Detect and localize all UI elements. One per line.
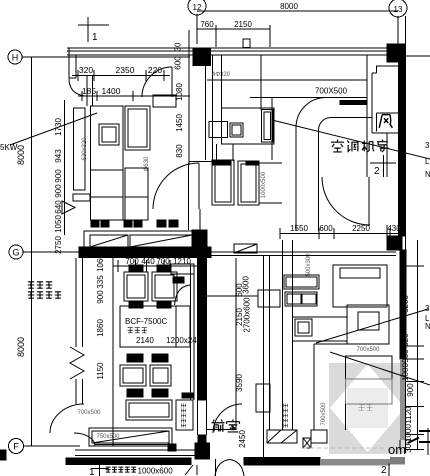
machine room floor wall lines xyxy=(207,252,396,256)
black tick bottom mid xyxy=(168,444,176,451)
door arcs bottom left xyxy=(50,404,95,446)
duct connection lines to right room xyxy=(293,317,348,344)
svg-text:2150: 2150 xyxy=(234,20,252,29)
watermark zhulong gray field xyxy=(329,363,406,454)
dimension row 1550 600 2250 430 xyxy=(280,224,403,239)
grille on band right xyxy=(234,244,257,253)
svg-text:700x500: 700x500 xyxy=(356,347,380,353)
bottom wall xyxy=(66,450,320,465)
svg-text:520: 520 xyxy=(401,333,410,347)
double door bottom xyxy=(215,459,244,476)
svg-text:1150: 1150 xyxy=(96,362,105,380)
front room right wall xyxy=(236,256,270,457)
svg-text:1450: 1450 xyxy=(175,114,184,132)
wall between rooms top xyxy=(206,55,213,160)
svg-text:600: 600 xyxy=(174,56,183,70)
tiny labels 700x500 bottom left xyxy=(77,410,120,440)
dimension column x189 30 600 1080 1450 830 xyxy=(174,30,190,165)
svg-text:900: 900 xyxy=(54,184,63,198)
svg-text:220: 220 xyxy=(148,65,162,75)
room label air conditioning machine room xyxy=(331,140,388,152)
machine room silencers xyxy=(212,160,282,205)
grille front room xyxy=(267,430,297,443)
svg-text:3200: 3200 xyxy=(401,295,410,313)
door arc front room xyxy=(213,404,242,433)
right edge cut texts 3 L N xyxy=(425,141,430,179)
wall pier black top middle xyxy=(193,48,211,66)
svg-text:430: 430 xyxy=(387,224,401,233)
svg-text:1000x500: 1000x500 xyxy=(261,171,267,198)
section marker 2 bottom xyxy=(381,464,389,476)
top wall xyxy=(67,39,430,78)
grid bubble G xyxy=(9,245,23,259)
svg-text:2250: 2250 xyxy=(352,224,370,233)
leader line lower right xyxy=(316,309,428,343)
svg-text:900: 900 xyxy=(96,290,105,304)
section marker 1 bottom xyxy=(89,462,108,476)
flanges bottom xyxy=(127,389,168,397)
svg-text:3590: 3590 xyxy=(235,374,244,392)
front room header line xyxy=(207,429,237,431)
svg-text:750x500: 750x500 xyxy=(96,434,120,440)
svg-text:2450: 2450 xyxy=(238,430,247,448)
svg-text:2: 2 xyxy=(381,465,387,476)
equipment stacked boxes left room xyxy=(91,168,149,220)
svg-text:N: N xyxy=(425,322,430,331)
svg-text:8000: 8000 xyxy=(280,2,298,11)
svg-text:2140: 2140 xyxy=(136,336,154,345)
svg-text:1: 1 xyxy=(92,32,98,43)
svg-text:335: 335 xyxy=(96,275,105,289)
svg-text:8000: 8000 xyxy=(16,145,26,165)
vertical duct riser left xyxy=(73,108,90,201)
svg-text:H: H xyxy=(12,53,19,63)
svg-text:F: F xyxy=(13,442,19,452)
svg-text:3: 3 xyxy=(425,304,430,313)
grid line vertical left xyxy=(31,57,33,446)
grid line G xyxy=(23,251,80,253)
grid bubble F xyxy=(9,439,24,454)
svg-text:1860: 1860 xyxy=(96,319,105,337)
right wall inner face lines xyxy=(386,133,388,236)
svg-text:L: L xyxy=(425,157,430,166)
svg-text:1000: 1000 xyxy=(401,363,410,381)
svg-text:600: 600 xyxy=(319,224,333,233)
svg-text:700x500: 700x500 xyxy=(77,410,101,416)
svg-text:2350: 2350 xyxy=(116,65,135,75)
leader diag bottom right xyxy=(330,352,430,385)
duct lintel black xyxy=(340,101,367,105)
BCF-7500C box xyxy=(120,306,197,347)
black tick bottom left edge xyxy=(0,450,6,460)
svg-text:500x300: 500x300 xyxy=(306,253,312,277)
section marker 2 right xyxy=(370,155,396,177)
air shaft feng xyxy=(367,55,399,177)
svg-text:BCF-7500C: BCF-7500C xyxy=(125,317,167,326)
dimension 8000 top xyxy=(197,2,398,44)
svg-text:700X500: 700X500 xyxy=(315,87,348,96)
boxes right of front room xyxy=(303,430,327,448)
svg-text:900: 900 xyxy=(54,169,63,183)
slash mark bottom xyxy=(185,465,197,475)
grid bubble 13 top xyxy=(389,0,407,17)
equipment AHU left room xyxy=(91,95,177,170)
svg-text:760: 760 xyxy=(200,20,214,29)
svg-text:13: 13 xyxy=(394,5,403,14)
svg-text:G: G xyxy=(12,248,19,258)
flanges below BCF xyxy=(127,354,168,362)
dimension row 700 440 700 1210 xyxy=(113,257,203,272)
interior wall vertical thick xyxy=(195,230,210,459)
svg-text:8000: 8000 xyxy=(16,337,26,357)
svg-text:3600: 3600 xyxy=(242,276,251,294)
door zigzag left wall xyxy=(70,347,84,379)
right edge cut texts 3 L N lower xyxy=(425,304,430,331)
room label water tank AC room xyxy=(28,282,61,298)
duct line into right room xyxy=(207,295,259,297)
svg-text:1050: 1050 xyxy=(54,215,63,233)
flange symbols row xyxy=(91,220,178,227)
exhaust fans pair xyxy=(124,272,177,301)
door arc mid wall xyxy=(153,163,199,209)
svg-text:30: 30 xyxy=(174,42,183,51)
wall pier black top right xyxy=(387,44,405,62)
svg-text:2750: 2750 xyxy=(54,236,63,254)
duct vertical to elbow xyxy=(296,97,372,231)
dimension row 185 1400 xyxy=(78,86,190,101)
duct silencer stack bottom middle xyxy=(258,275,319,336)
right room equipment xyxy=(333,265,389,353)
equipment box right of front room xyxy=(256,384,270,412)
grid line H xyxy=(22,56,190,58)
section marker 1 top xyxy=(78,17,109,43)
grid line F xyxy=(24,445,80,447)
watermark om text and dashes xyxy=(388,442,406,457)
svg-text:Φ630: Φ630 xyxy=(144,156,150,171)
svg-text:1: 1 xyxy=(89,467,95,476)
watermark dashed line xyxy=(303,447,387,449)
left wall lower room xyxy=(76,258,83,404)
leader line 5KW xyxy=(10,113,97,145)
interior wall horizontal black band xyxy=(79,230,211,258)
svg-text:630x320: 630x320 xyxy=(82,137,88,161)
flat duct grille box bottom xyxy=(89,428,172,446)
dimension column left 1730 943 900 900 640 xyxy=(54,100,64,235)
grid bubble 12 top xyxy=(188,0,206,15)
svg-text:2700x600: 2700x600 xyxy=(243,297,252,333)
lower left room dim column xyxy=(96,252,113,446)
svg-text:3: 3 xyxy=(425,141,430,150)
svg-text:2: 2 xyxy=(374,166,380,177)
svg-text:1000x600: 1000x600 xyxy=(138,467,174,476)
bottom duct box xyxy=(126,400,172,420)
door arc machine room xyxy=(322,177,370,225)
vertical shaft label texts xyxy=(182,404,288,428)
svg-text:900: 900 xyxy=(401,349,410,363)
svg-text:1120: 1120 xyxy=(404,406,413,424)
svg-text:900: 900 xyxy=(406,383,415,397)
svg-text:1400: 1400 xyxy=(102,86,121,96)
svg-text:185: 185 xyxy=(82,86,96,96)
duct horizontal top 700X500 xyxy=(207,80,367,160)
wall stub x88 top xyxy=(87,75,93,106)
right dimension column 3200 etc xyxy=(401,240,430,455)
svg-text:1550: 1550 xyxy=(290,224,308,233)
right wall thick xyxy=(387,16,406,453)
svg-text:700x500: 700x500 xyxy=(321,402,327,426)
svg-text:1200x24: 1200x24 xyxy=(166,336,197,345)
shaft box bottom xyxy=(176,393,193,430)
duct riser pair right of room xyxy=(171,264,194,400)
dim col x246 600 2150 3590 xyxy=(235,276,252,392)
svg-text:1060: 1060 xyxy=(96,254,105,272)
leader line to right xyxy=(272,120,430,159)
fan flanges xyxy=(129,265,184,308)
front room label xyxy=(212,420,240,432)
louver band xyxy=(84,231,192,251)
svg-text:N: N xyxy=(425,170,430,179)
ceiling line above bottom wall xyxy=(95,444,172,446)
svg-text:om: om xyxy=(388,442,406,457)
watermark center mark xyxy=(359,405,373,411)
dimension 760 2150 xyxy=(197,20,270,47)
svg-text:5KW: 5KW xyxy=(0,143,18,152)
lower duct vertical pair xyxy=(283,240,293,430)
lower fan units xyxy=(120,365,171,386)
grid bubble H xyxy=(8,50,22,64)
vertical duct line x314 xyxy=(313,344,315,430)
svg-text:943: 943 xyxy=(54,149,63,163)
svg-text:830: 830 xyxy=(175,144,184,158)
machine room equipment cluster xyxy=(209,55,274,161)
bottom label pressurized fan xyxy=(106,467,137,472)
flow arrow left xyxy=(62,201,75,214)
wall jog mid xyxy=(189,162,213,231)
svg-text:320: 320 xyxy=(79,65,93,75)
svg-text:1210: 1210 xyxy=(173,257,191,266)
equipment boxes over watermark xyxy=(346,356,393,430)
bottom wall gray segment xyxy=(320,459,390,466)
dimension row 320 2350 220 xyxy=(72,65,170,81)
door arc top left wall xyxy=(69,79,85,97)
svg-text:1000: 1000 xyxy=(404,424,413,442)
svg-text:1080: 1080 xyxy=(175,83,184,101)
door arc top wall mid xyxy=(142,67,172,97)
